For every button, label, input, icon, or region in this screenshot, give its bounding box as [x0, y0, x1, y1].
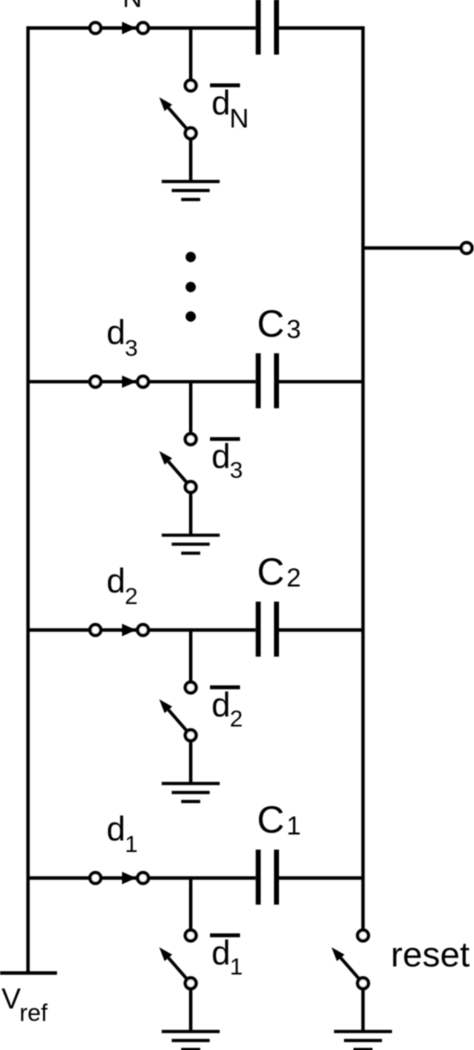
svg-text:N: N: [123, 0, 143, 13]
svg-text:ref: ref: [20, 1000, 48, 1027]
svg-text:3: 3: [125, 335, 138, 361]
svg-text:3: 3: [230, 457, 243, 483]
svg-text:3: 3: [287, 314, 301, 344]
svg-text:d: d: [212, 84, 231, 122]
svg-text:d: d: [107, 810, 126, 848]
svg-text:N: N: [229, 104, 249, 134]
svg-text:d: d: [107, 314, 126, 352]
svg-text:C: C: [257, 800, 284, 842]
svg-text:reset: reset: [391, 935, 470, 975]
svg-text:2: 2: [287, 563, 301, 593]
svg-text:1: 1: [125, 831, 138, 857]
svg-text:d: d: [107, 562, 126, 600]
svg-text:1: 1: [230, 953, 243, 979]
svg-text:d: d: [212, 438, 231, 476]
svg-text:d: d: [212, 934, 231, 972]
svg-text:C: C: [257, 552, 284, 594]
svg-text:1: 1: [287, 811, 301, 841]
svg-text:2: 2: [230, 705, 243, 731]
svg-text:d: d: [212, 686, 231, 724]
svg-text:V: V: [2, 984, 22, 1016]
svg-text:2: 2: [125, 583, 138, 609]
svg-text:C: C: [257, 303, 284, 345]
